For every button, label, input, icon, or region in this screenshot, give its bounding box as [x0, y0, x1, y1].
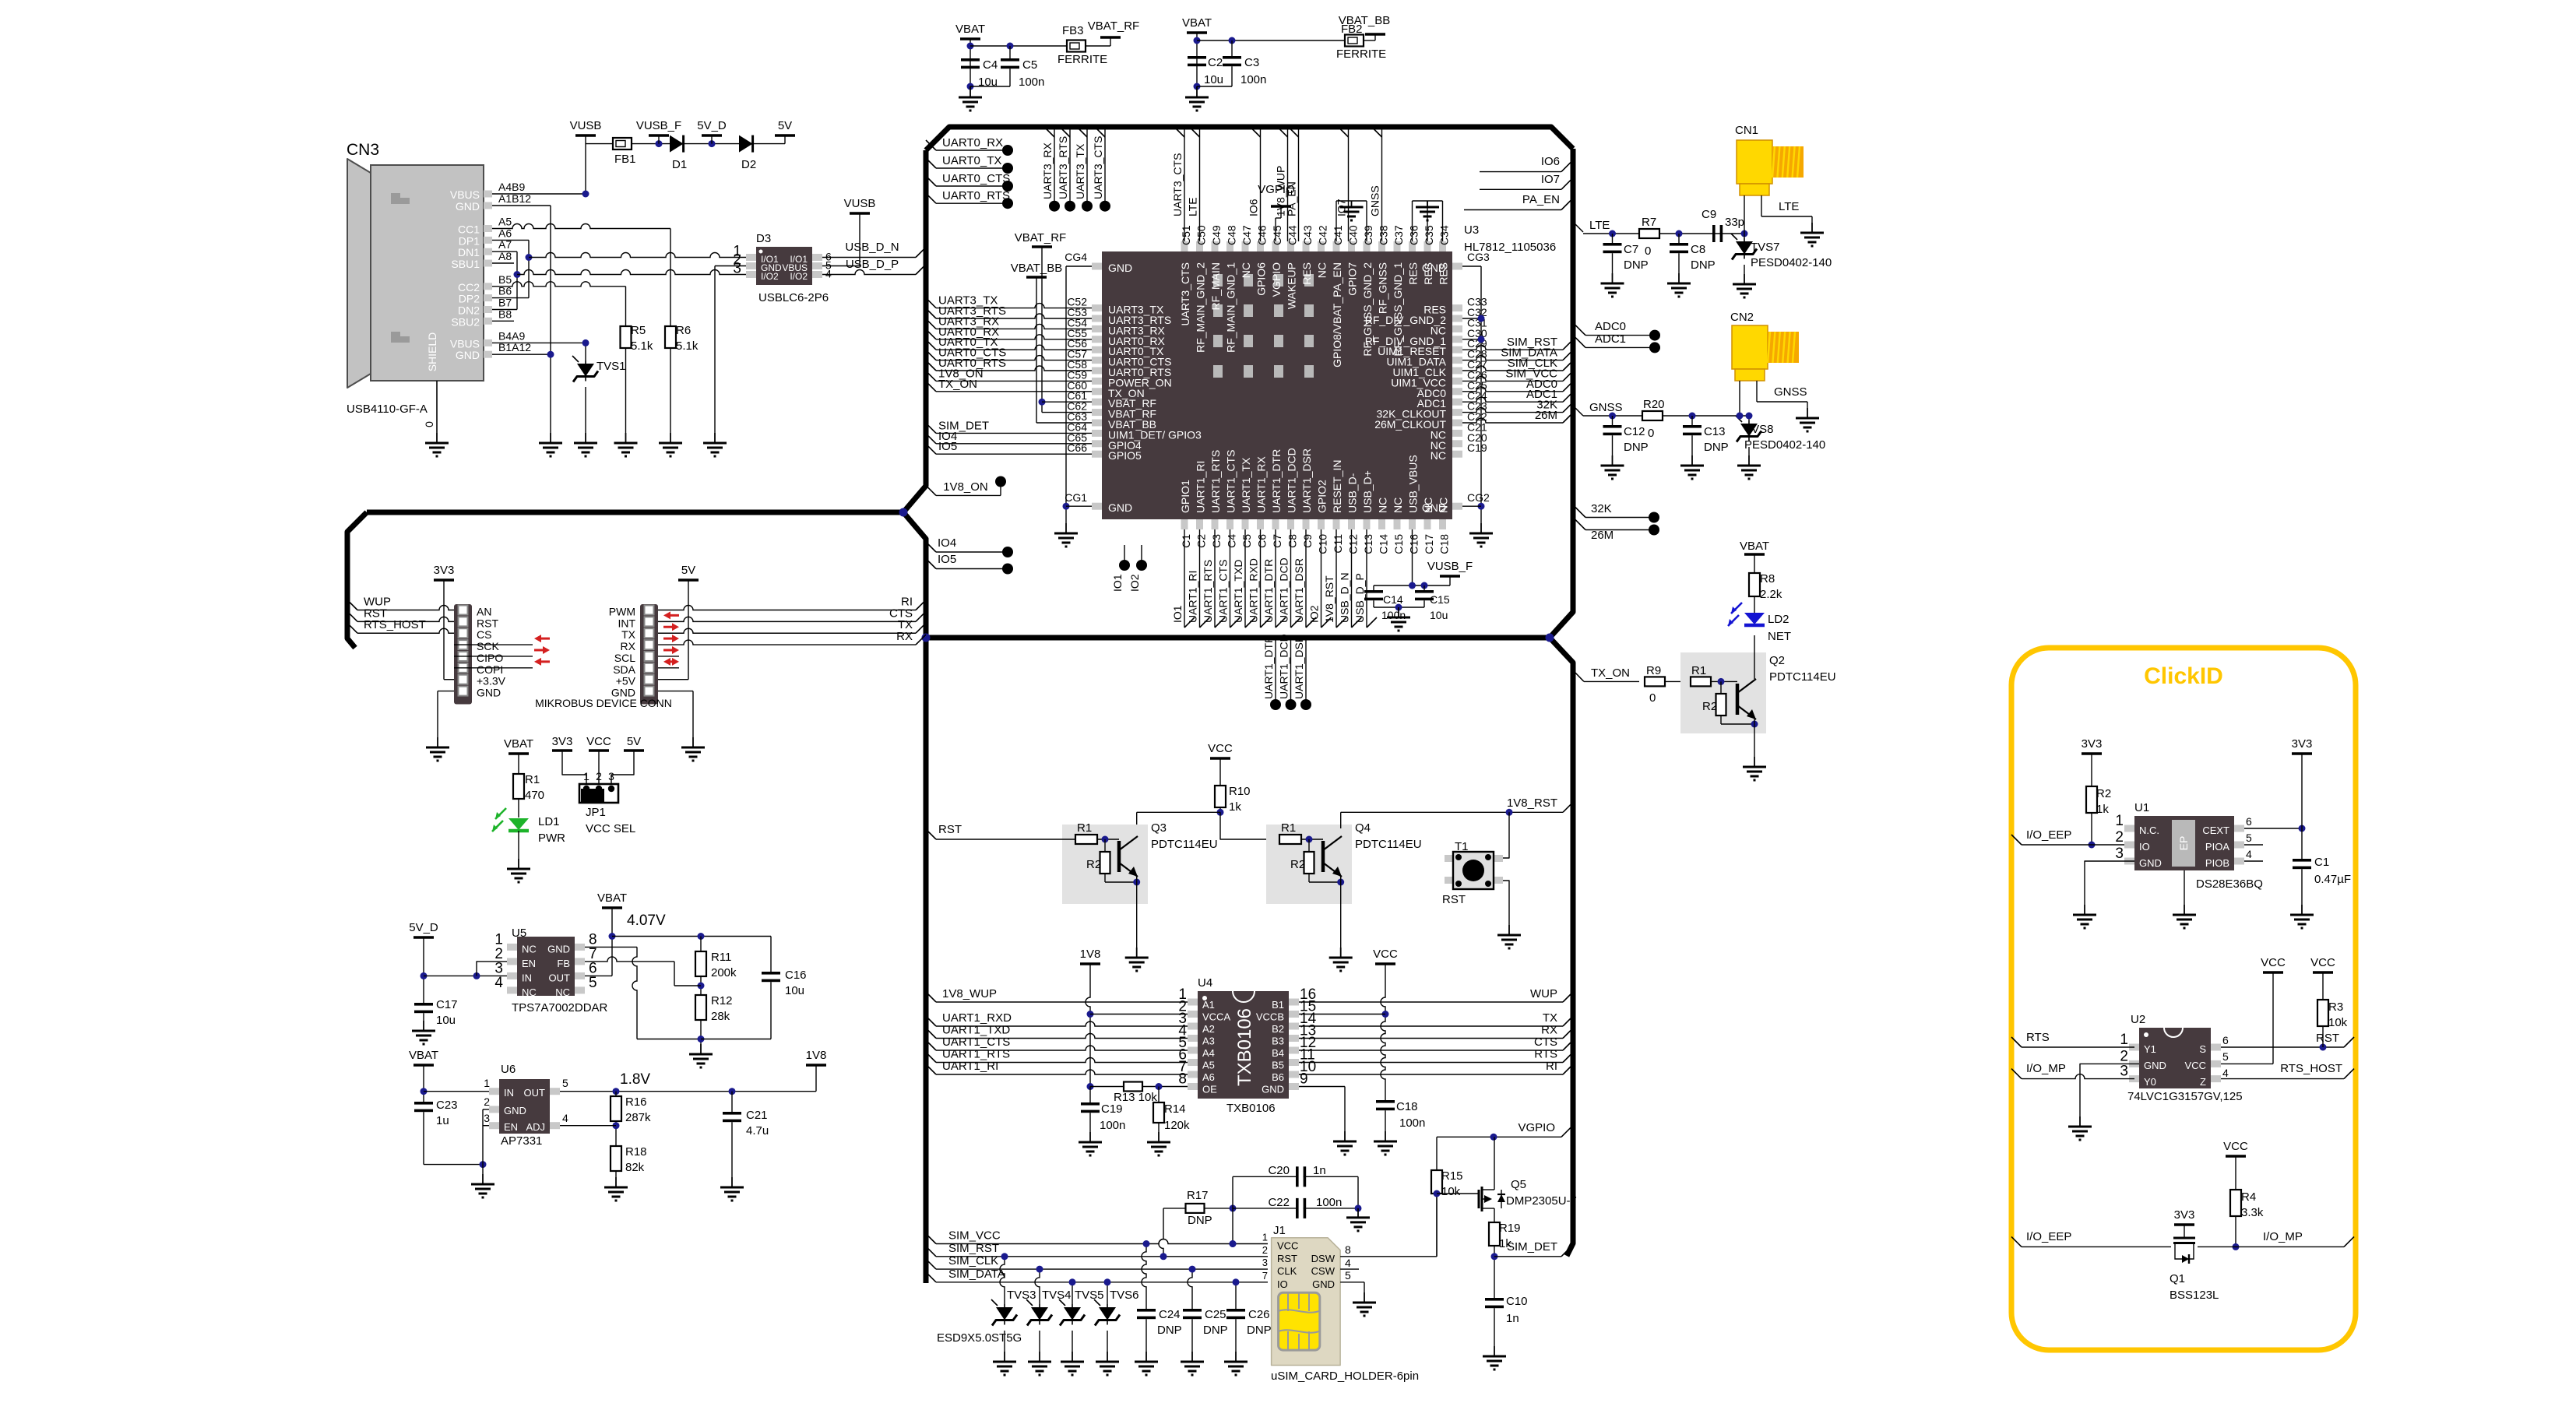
wire UART1_CTS to bus [1230, 529, 1231, 628]
svg-text:B5: B5 [1272, 1060, 1284, 1071]
wire D2 to 5V [753, 143, 785, 145]
svg-text:100n: 100n [1100, 1119, 1125, 1132]
wire USB_D_P to bus [1366, 529, 1367, 628]
svg-text:1k: 1k [1229, 800, 1241, 814]
svg-text:B6: B6 [1272, 1071, 1284, 1083]
pin C66 GPIO5 [1092, 451, 1102, 458]
svg-text:UART1_DSR: UART1_DSR [1300, 448, 1313, 513]
wire USB D+ to D3 pin1 [529, 253, 746, 258]
ClickID outline [2011, 648, 2356, 1350]
wire LED to R8 [1754, 596, 1755, 613]
svg-text:DNP: DNP [1691, 258, 1716, 272]
svg-text:USB4110-GF-A: USB4110-GF-A [347, 403, 428, 416]
pin C54 UART3_RX [1092, 325, 1102, 332]
wire Q5 source to VGPIO [1494, 1137, 1495, 1190]
node bus-mikrobus junction [899, 508, 908, 517]
transistor group Q3 PDTC114EU [1062, 825, 1148, 904]
svg-text:C18: C18 [1438, 534, 1451, 554]
svg-text:10u: 10u [1204, 73, 1223, 86]
transistor Q1 BSS123L [2173, 1237, 2195, 1239]
pin C61 VBAT_RF [1092, 399, 1102, 406]
svg-text:5V: 5V [627, 735, 641, 748]
arrow SCL [672, 646, 679, 654]
svg-text:UART1_TX: UART1_TX [1240, 457, 1252, 513]
svg-text:USB_D_N: USB_D_N [1339, 572, 1351, 623]
wire GNSS top [1381, 130, 1383, 242]
wire R17 to C22 [1204, 1208, 1233, 1209]
wire VGPIO to U3 [1280, 206, 1282, 218]
svg-text:B2: B2 [1272, 1023, 1284, 1035]
svg-text:U1: U1 [2134, 801, 2149, 814]
ground C25 [1191, 1352, 1193, 1362]
ground TVS3 [1004, 1352, 1005, 1362]
wire Q4 collector 1V8_RST [1340, 812, 1342, 828]
svg-text:UART3_CTS: UART3_CTS [1171, 153, 1184, 216]
wire R15 to gate [1436, 1194, 1438, 1257]
svg-text:UART1_CTS: UART1_CTS [1217, 560, 1230, 623]
wire T1 to ground [1503, 881, 1509, 925]
svg-text:U6: U6 [501, 1063, 516, 1076]
svg-text:120k: 120k [1164, 1119, 1190, 1132]
svg-text:VCC: VCC [2223, 1140, 2248, 1153]
wire PIOB stub [2244, 860, 2263, 862]
svg-text:GPIO7: GPIO7 [1346, 262, 1359, 296]
svg-text:1k: 1k [2096, 803, 2109, 816]
svg-text:PIOB: PIOB [2205, 857, 2229, 869]
svg-text:VBAT_BB: VBAT_BB [1011, 262, 1062, 275]
ground U1 EP [2184, 905, 2185, 915]
wire UART1_DCD below bus [1290, 641, 1292, 705]
capacitor C18 100n [1376, 1100, 1395, 1103]
pin C59 POWER_ON [1092, 378, 1102, 385]
svg-text:IN: IN [504, 1087, 514, 1099]
pin C5 UART1_TX [1242, 519, 1249, 529]
bus to mikrobus connector [367, 510, 903, 515]
svg-text:R16: R16 [625, 1095, 647, 1109]
svg-text:PIOA: PIOA [2205, 841, 2229, 853]
wire UART1_RTS [926, 1053, 936, 1063]
wire 1V8_ON stub [926, 485, 936, 495]
svg-text:C23: C23 [436, 1099, 458, 1112]
pin C33 RES [1452, 304, 1462, 311]
wire IO2 stub below U3 [1141, 545, 1142, 565]
svg-text:R6: R6 [676, 324, 691, 337]
pin C38 RF_GNSS [1378, 241, 1385, 251]
svg-text:UART3_CTS: UART3_CTS [1092, 136, 1104, 199]
svg-text:LTE: LTE [1589, 219, 1610, 232]
svg-text:74LVC1G3157GV,125: 74LVC1G3157GV,125 [2127, 1090, 2243, 1103]
transistor Q3 [1117, 841, 1121, 872]
svg-text:USB_D_N: USB_D_N [845, 241, 899, 254]
wire U6 GND EN [483, 1109, 489, 1110]
wire OE [1090, 1086, 1188, 1088]
svg-text:DNP: DNP [1704, 441, 1729, 454]
svg-text:A4B9: A4B9 [498, 181, 525, 193]
svg-text:RES: RES [1422, 262, 1434, 285]
wire D1 to D2 [684, 143, 739, 145]
pin C46 GPIO6 [1257, 241, 1264, 251]
ground CG2 CG3 [1480, 523, 1482, 533]
wire 26M stub [1575, 520, 1585, 530]
ground CG1 CG4 [1065, 523, 1067, 533]
svg-text:R14: R14 [1164, 1102, 1186, 1116]
wire VBAT to FB3 [970, 45, 1067, 47]
svg-text:VCC: VCC [1208, 742, 1233, 755]
svg-text:BSS123L: BSS123L [2170, 1289, 2219, 1302]
svg-text:VUSB: VUSB [844, 197, 876, 210]
wire Q4 emitter to ground [1340, 877, 1342, 948]
svg-text:SCL: SCL [614, 652, 635, 664]
svg-text:A1: A1 [1202, 999, 1215, 1011]
wire Q5 drain to R19 [1494, 1208, 1495, 1222]
svg-text:PA_EN: PA_EN [1522, 193, 1560, 206]
svg-text:I/O_EEP: I/O_EEP [2026, 828, 2071, 842]
svg-text:VGPIO: VGPIO [1270, 262, 1283, 297]
wire Q3 emitter to ground [1136, 877, 1138, 948]
svg-text:TPS7A7002DDAR: TPS7A7002DDAR [512, 1001, 608, 1014]
wire RST to Q3 [926, 829, 936, 839]
capacitor C20 1n [1233, 1176, 1296, 1177]
svg-text:VBUS: VBUS [450, 188, 480, 201]
wire 1V8 to C19 [1089, 1087, 1091, 1103]
svg-text:EN: EN [522, 958, 536, 969]
svg-text:VGPIO: VGPIO [1258, 183, 1295, 196]
svg-text:8: 8 [1178, 1071, 1187, 1088]
wire SIM_DATA [926, 1272, 936, 1282]
svg-text:VBAT_BB: VBAT_BB [1339, 14, 1390, 27]
svg-text:CN2: CN2 [1730, 311, 1754, 324]
ground Q4 [1340, 948, 1342, 958]
svg-text:C17: C17 [436, 998, 458, 1011]
svg-text:GPIO8/VBAT_PA_EN: GPIO8/VBAT_PA_EN [1331, 262, 1343, 367]
svg-text:SIM_DATA: SIM_DATA [948, 1268, 1005, 1281]
wire IO4 to U3 [926, 434, 936, 444]
wire R16 to ADJ [615, 1121, 617, 1146]
wire TX_ON to U3 [926, 382, 936, 392]
svg-text:NC: NC [555, 986, 570, 998]
svg-text:RES: RES [1438, 262, 1450, 285]
svg-text:U2: U2 [2131, 1013, 2145, 1026]
wire R2 to emitter [1720, 716, 1722, 724]
wire PIOA stub [2244, 844, 2263, 846]
svg-text:Q2: Q2 [1769, 654, 1785, 667]
svg-text:C12: C12 [1347, 534, 1360, 554]
svg-text:LTE: LTE [1779, 200, 1799, 213]
svg-text:ClickID: ClickID [2144, 663, 2223, 689]
svg-text:CTS: CTS [1534, 1036, 1557, 1049]
svg-text:1n: 1n [1506, 1312, 1519, 1325]
module block outline top edge [926, 127, 1573, 150]
svg-text:C5: C5 [1022, 58, 1037, 72]
svg-text:IO7: IO7 [1541, 173, 1560, 186]
svg-text:TVS1: TVS1 [596, 360, 626, 373]
wire C16 bottom [701, 1039, 771, 1040]
svg-text:GND: GND [1108, 262, 1132, 274]
svg-text:VCC: VCC [2261, 956, 2286, 969]
pin C44 WAKEUP [1287, 241, 1294, 251]
svg-text:SIM_RST: SIM_RST [948, 1242, 999, 1255]
pin C24 ADC1 [1452, 399, 1462, 406]
node bus lower junction [1546, 634, 1554, 642]
resistor R1 of Q3 [1075, 835, 1097, 844]
svg-text:R17: R17 [1187, 1189, 1209, 1202]
wire U5 GND pin8 [585, 946, 637, 948]
TVS diode TVS1 [585, 343, 586, 360]
svg-text:3V3: 3V3 [434, 564, 455, 577]
svg-text:GND: GND [1312, 1278, 1335, 1290]
capacitor C13 DNP [1691, 416, 1693, 425]
wire SCK stub [454, 644, 533, 645]
svg-text:DNP: DNP [1188, 1214, 1212, 1227]
wire Q2 emitter to ground [1754, 719, 1755, 757]
svg-text:26M: 26M [1591, 529, 1614, 542]
svg-text:A6: A6 [1202, 1071, 1215, 1083]
pin C25 ADC0 [1452, 388, 1462, 395]
pin C18 NC [1439, 519, 1446, 529]
svg-text:R8: R8 [1760, 572, 1775, 585]
wire R1 to Q4 base [1301, 839, 1323, 840]
svg-text:GPIO6: GPIO6 [1255, 262, 1268, 296]
svg-text:3: 3 [1262, 1257, 1268, 1268]
pin C64 UIM1_DET/ GPIO3 [1092, 430, 1102, 437]
resistor R2 1k [2086, 786, 2097, 813]
svg-text:UART1_RI: UART1_RI [942, 1060, 998, 1073]
wire U6 IN [424, 1091, 489, 1092]
diode D1 [670, 135, 684, 153]
svg-text:UART1_DTR: UART1_DTR [1270, 449, 1283, 513]
wire U2 GND [2080, 1064, 2139, 1116]
svg-text:C16: C16 [785, 969, 807, 982]
wire UART3_RTS to U3 [926, 308, 936, 318]
svg-text:RESET_IN: RESET_IN [1331, 460, 1343, 513]
wire Z to RTS_HOST [2221, 1078, 2344, 1080]
module block outline right edge upper [1550, 149, 1573, 638]
svg-text:VCCB: VCCB [1256, 1011, 1284, 1023]
capacitor C23 1u [414, 1102, 433, 1105]
svg-text:UART1_DTR: UART1_DTR [1262, 635, 1275, 699]
svg-text:GNSS: GNSS [1589, 401, 1623, 414]
wire IO6 inside [1480, 171, 1561, 173]
ground C12 [1612, 455, 1614, 466]
svg-text:C24: C24 [1159, 1308, 1181, 1321]
wire CG1 GND [1066, 505, 1092, 507]
svg-text:C13: C13 [1362, 534, 1374, 554]
TVS diode TVS4 ESD9X5.0ST5G [1035, 1269, 1040, 1304]
pin C8 UART1_DCD [1287, 519, 1294, 529]
svg-text:5: 5 [2222, 1050, 2229, 1063]
wire DN1-DN2 vertical [516, 251, 518, 309]
wire R8 to VBAT [1754, 554, 1755, 573]
pin C41 GPIO8/VBAT_PA_EN [1333, 241, 1340, 251]
wire 1V8_WUP [926, 992, 936, 1002]
svg-text:A3: A3 [1202, 1036, 1215, 1047]
wire LD1 to ground [518, 831, 519, 859]
svg-text:DN2: DN2 [458, 304, 480, 317]
svg-text:1: 1 [484, 1077, 490, 1089]
svg-text:NET: NET [1768, 630, 1791, 643]
svg-text:UART1_RTS: UART1_RTS [942, 1048, 1010, 1061]
svg-text:UART1_DTR: UART1_DTR [1262, 559, 1275, 623]
wire ADC1 from U3 [1462, 397, 1563, 402]
svg-text:I/O_EEP: I/O_EEP [2026, 1230, 2071, 1243]
resistor R2 of Q2 [1720, 681, 1722, 694]
wire CTS [916, 611, 926, 621]
svg-text:C14: C14 [1378, 534, 1390, 554]
wire UART1_DCD to bus [1290, 529, 1292, 628]
svg-text:B5: B5 [498, 273, 512, 286]
wire VCC to R10 [1219, 758, 1221, 786]
svg-text:R1: R1 [1077, 821, 1092, 835]
pin C52 UART3_TX [1092, 304, 1102, 311]
wire USB D- to D3 pin3 [517, 270, 746, 275]
svg-text:RF_MAIN: RF_MAIN [1209, 262, 1222, 310]
svg-text:32K: 32K [1591, 502, 1612, 515]
svg-text:C41: C41 [1332, 225, 1344, 245]
svg-text:3.3k: 3.3k [2241, 1206, 2264, 1219]
pin C14 NC [1378, 519, 1385, 529]
svg-text:AP7331: AP7331 [501, 1134, 542, 1148]
svg-text:C20: C20 [1268, 1164, 1290, 1177]
wire RES pins to ground right [1412, 201, 1413, 241]
svg-text:C17: C17 [1423, 534, 1435, 554]
ground C13 [1691, 455, 1693, 466]
svg-text:I/O_MP: I/O_MP [2026, 1062, 2066, 1075]
wire RTS out [1299, 1062, 1563, 1064]
wire CN3 shield to ground [436, 381, 438, 433]
ground C7 [1612, 273, 1614, 283]
pin C19 NC [1452, 451, 1462, 458]
wire IO6 top [1260, 130, 1262, 242]
svg-text:4: 4 [1345, 1257, 1351, 1269]
svg-text:5.1k: 5.1k [676, 339, 699, 353]
svg-text:TVS4: TVS4 [1042, 1289, 1072, 1302]
pin C51 UART3_CTS [1181, 241, 1188, 251]
svg-text:SIM_DET: SIM_DET [1507, 1240, 1557, 1254]
wire TX out [1299, 1025, 1563, 1027]
wire VCC to R4 [2235, 1156, 2236, 1190]
svg-text:C9: C9 [1701, 208, 1716, 221]
svg-text:TVS5: TVS5 [1075, 1289, 1104, 1302]
svg-text:PESD0402-140: PESD0402-140 [1751, 256, 1832, 269]
wire TX [916, 623, 926, 633]
ground R14 [1158, 1132, 1160, 1142]
svg-text:NC: NC [1438, 498, 1450, 513]
wire UART3_RX stub from top edge [1054, 130, 1055, 206]
svg-text:VUSB_F: VUSB_F [636, 119, 681, 132]
capacitor C2 10u [1188, 56, 1206, 59]
wire SIM_RST from U3 [1462, 345, 1563, 350]
transistor Q5 DMP2305U-7 [1478, 1190, 1480, 1208]
svg-text:33p: 33p [1725, 216, 1744, 229]
svg-text:TX: TX [1543, 1011, 1557, 1025]
wire SIM_VCC [926, 1234, 936, 1244]
svg-text:5V: 5V [681, 564, 695, 577]
wire U5 IN [424, 975, 507, 976]
svg-text:WUP: WUP [1530, 987, 1557, 1000]
svg-text:9: 9 [1300, 1071, 1308, 1088]
resistor R9 0 [1645, 677, 1665, 686]
wire CN2 signal pin [1739, 381, 1740, 416]
svg-text:6: 6 [2246, 815, 2252, 828]
svg-text:C5: C5 [1240, 534, 1253, 548]
ground C24 [1145, 1352, 1147, 1362]
wire UART0_CTS stub [926, 176, 936, 186]
pin CG4 GND [1092, 263, 1102, 270]
ground RES right [1427, 201, 1428, 207]
wire IO5 to U3 [926, 444, 936, 454]
svg-text:CG2: CG2 [1467, 491, 1490, 504]
pin C2 UART1_RI [1196, 519, 1203, 529]
svg-text:C25: C25 [1205, 1308, 1226, 1321]
wire J1 GND [1340, 1282, 1364, 1283]
resistor R1 of Q2 [1691, 677, 1711, 686]
pin C62 VBAT_RF [1092, 409, 1102, 416]
svg-text:8: 8 [1345, 1243, 1351, 1256]
ground C17 [423, 1021, 424, 1031]
wire FB3 to VBAT_RF [1086, 45, 1110, 47]
svg-text:UART1_RXD: UART1_RXD [1248, 558, 1260, 623]
arrow TX [672, 623, 679, 631]
svg-text:C2: C2 [1208, 56, 1223, 69]
wire CG3 GND [1462, 265, 1481, 267]
wire LTE [1574, 223, 1583, 232]
svg-text:USB_VBUS: USB_VBUS [1407, 455, 1420, 513]
wire C22 right [1304, 1208, 1358, 1209]
svg-text:GND: GND [504, 1105, 526, 1116]
svg-text:CEXT: CEXT [2202, 825, 2229, 836]
svg-text:SDA: SDA [613, 663, 635, 676]
LED LD1 PWR green [509, 818, 529, 830]
transistor group Q4 PDTC114EU [1266, 825, 1352, 904]
ground mikrobus right [692, 737, 694, 747]
svg-text:CLK: CLK [1277, 1265, 1297, 1277]
svg-text:NC: NC [522, 986, 537, 998]
ground TVS7 [1744, 274, 1745, 284]
svg-text:C8: C8 [1691, 243, 1705, 256]
arrow CIPO [543, 646, 550, 654]
wire SIM_RST [926, 1247, 936, 1257]
svg-text:C21: C21 [746, 1109, 768, 1122]
wire SBU2 stub [492, 320, 514, 322]
svg-text:VUSB_F: VUSB_F [1427, 560, 1473, 573]
ground C10 [1494, 1346, 1495, 1356]
svg-text:LD1: LD1 [538, 815, 560, 828]
capacitor C5 100n [1009, 46, 1011, 58]
wire USB_D_N to bus [1351, 529, 1353, 628]
svg-text:USB_D_P: USB_D_P [846, 258, 899, 271]
wire SIM_DET to U3 [926, 423, 936, 433]
svg-text:R1: R1 [525, 773, 540, 786]
arrow SDA [663, 658, 670, 666]
capacitor C8 DNP [1678, 234, 1680, 243]
wire R19 to SIM_DET [1494, 1246, 1495, 1298]
svg-text:GPIO1: GPIO1 [1179, 480, 1191, 513]
svg-text:10k: 10k [1441, 1185, 1461, 1198]
svg-text:GND: GND [1108, 501, 1132, 514]
svg-text:VCC: VCC [586, 735, 611, 748]
pin C65 GPIO4 [1092, 440, 1102, 447]
svg-text:EN: EN [504, 1121, 518, 1133]
wire left GND pin [438, 691, 454, 692]
wire UART1_DSR to bus [1305, 529, 1307, 628]
wire U6 OUT rail [560, 1091, 816, 1092]
svg-text:DNP: DNP [1624, 258, 1649, 272]
wire CG4 GND [1066, 265, 1092, 267]
svg-text:1V8_RST: 1V8_RST [1507, 796, 1557, 810]
svg-text:R4: R4 [2241, 1190, 2256, 1204]
wire right GND pin [658, 691, 693, 692]
wire 3V3 to R2 [2091, 754, 2092, 786]
